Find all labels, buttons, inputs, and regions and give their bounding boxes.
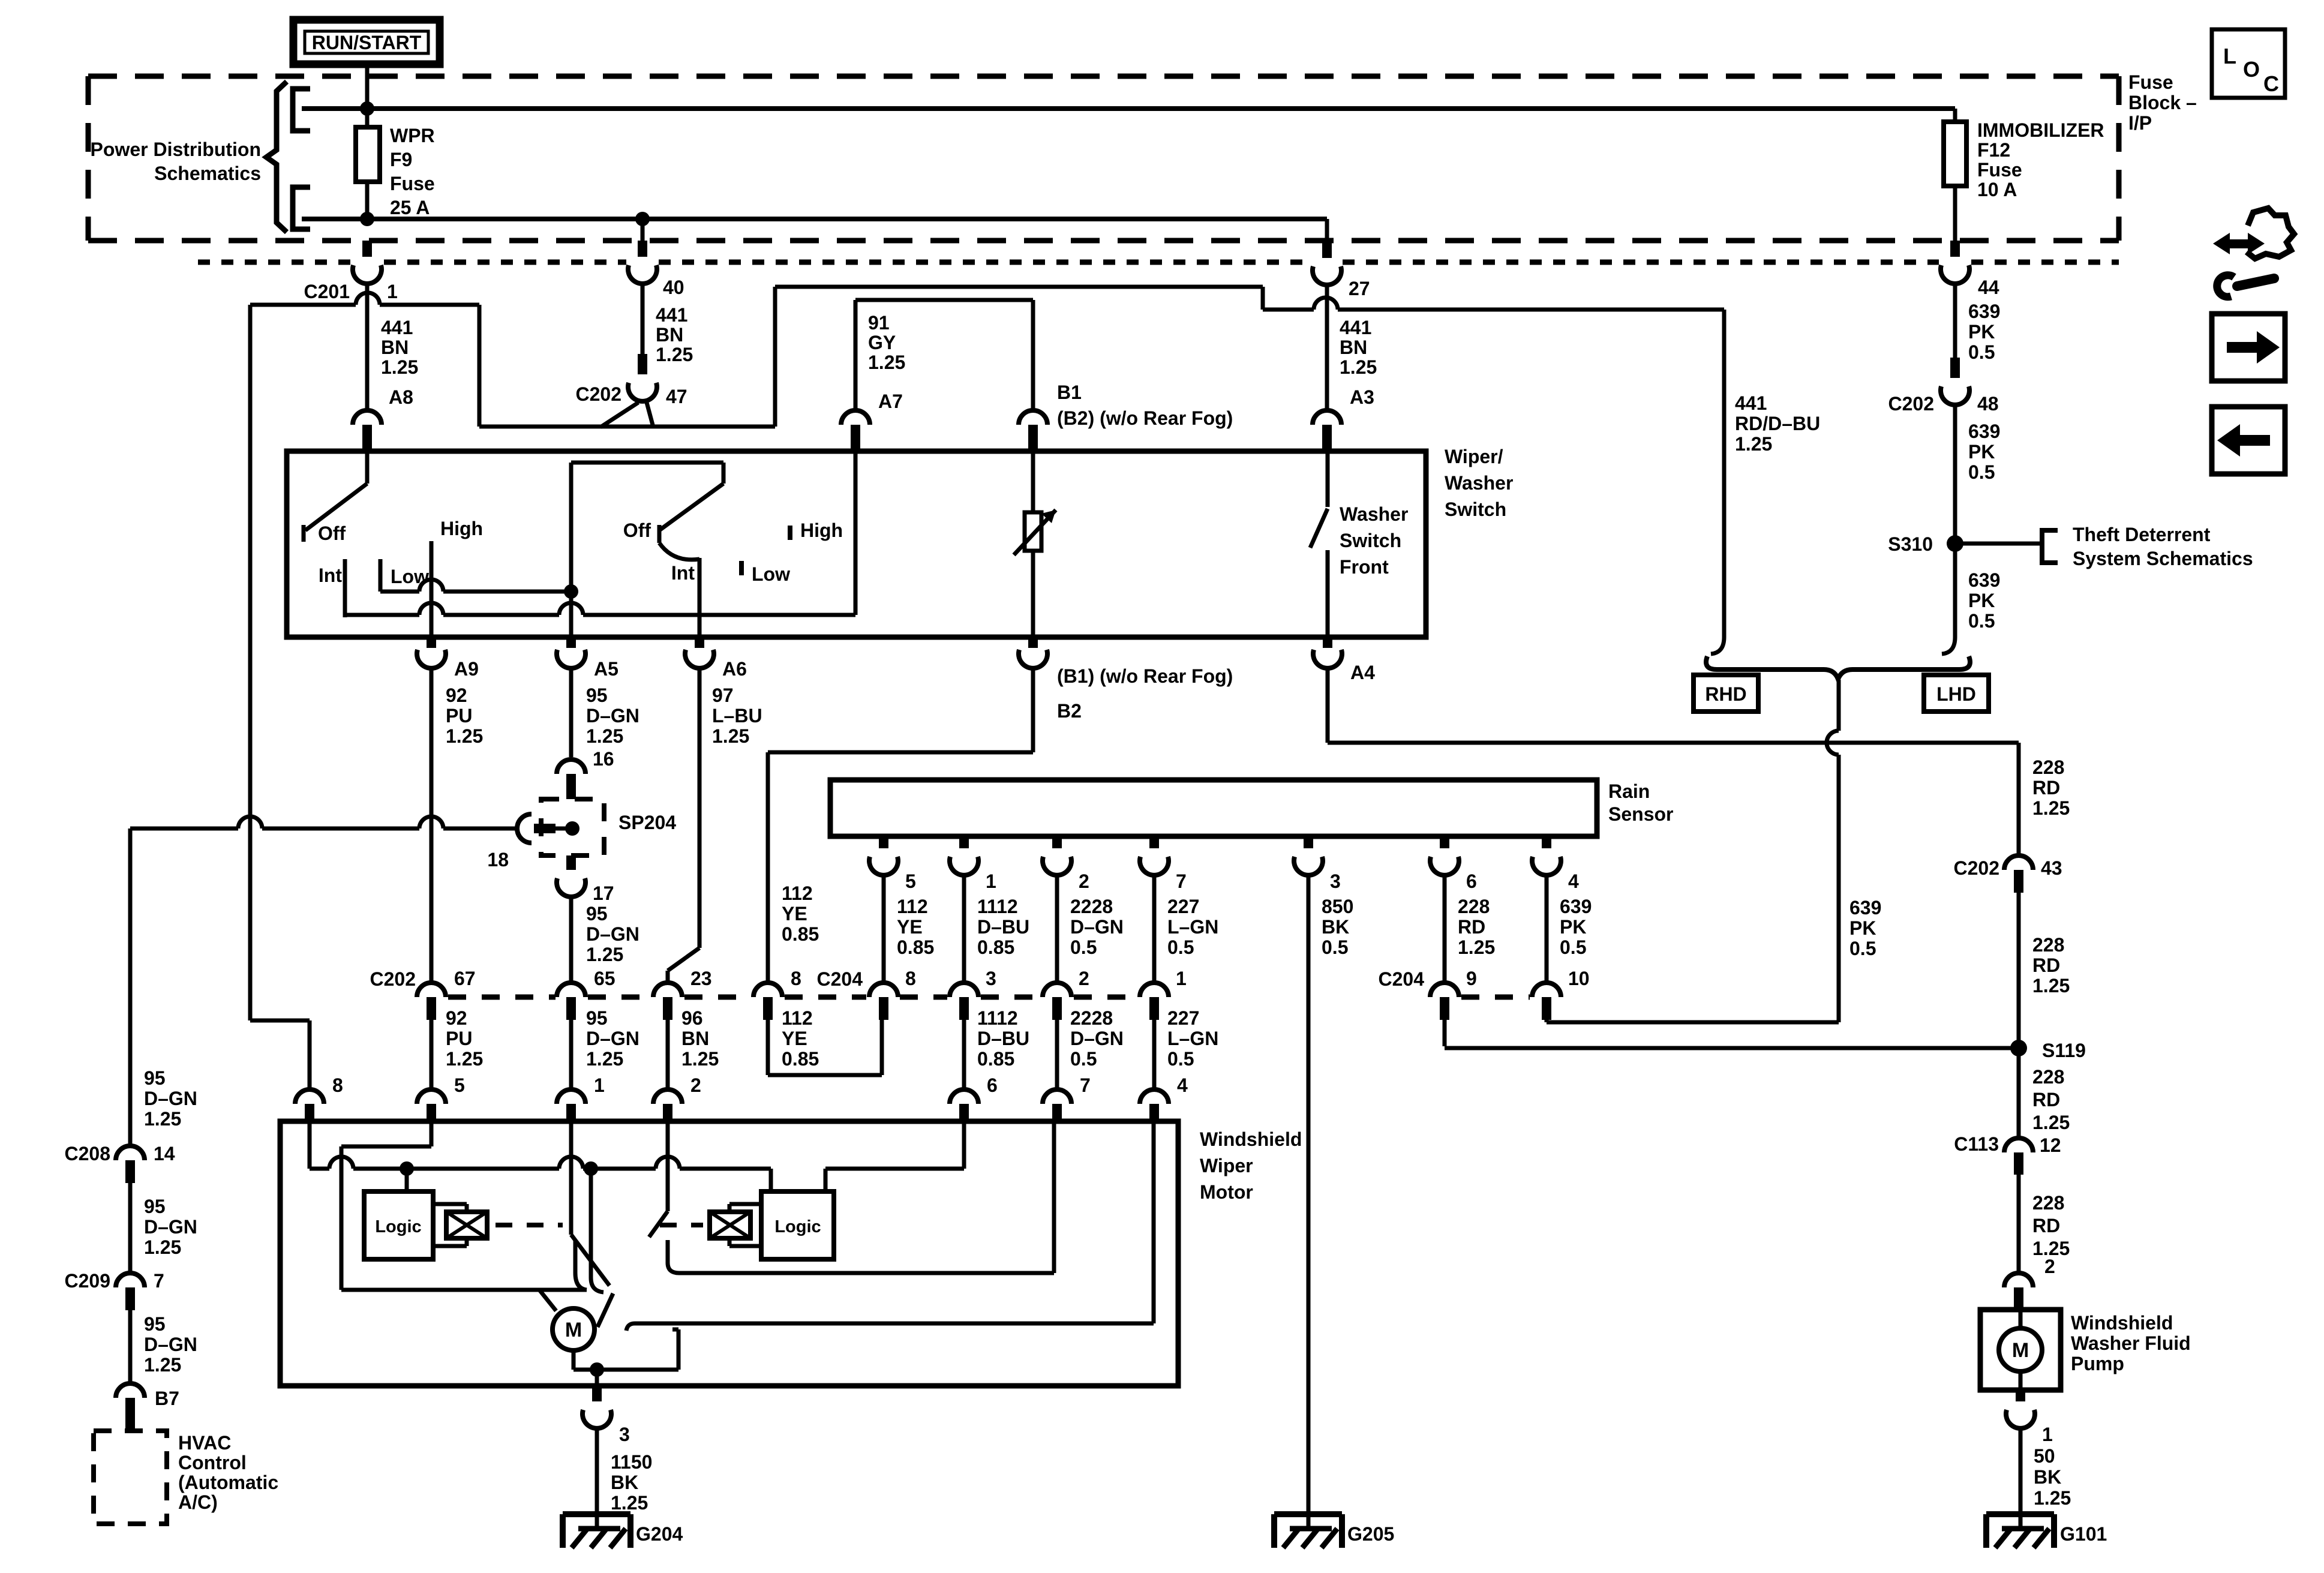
- bus wire lower: [302, 217, 1327, 221]
- svg-text:2: 2: [2044, 1256, 2055, 1277]
- motor pin 8: [295, 1074, 343, 1121]
- windshield wiper motor box: [280, 1121, 1178, 1386]
- svg-text:6: 6: [987, 1074, 998, 1096]
- label 228 RD 1.25 (C113): [2032, 1192, 2070, 1259]
- wire 639 PK (S310 to LHD): [1942, 544, 1955, 654]
- svg-text:0.85: 0.85: [897, 936, 934, 958]
- svg-text:Washer Fluid: Washer Fluid: [2071, 1332, 2191, 1354]
- connector C201 pin 1: [304, 241, 398, 302]
- svg-text:High: High: [440, 518, 483, 539]
- motor pin 2: [653, 1074, 701, 1121]
- svg-text:44: 44: [1978, 277, 1999, 298]
- label 441 RD/D-BU 1.25: [1735, 392, 1820, 455]
- svg-text:Logic: Logic: [774, 1217, 821, 1236]
- wire 639 PK (C204-10 to LHD brace): [1547, 680, 1839, 1022]
- svg-text:8: 8: [905, 968, 916, 989]
- svg-text:2: 2: [1079, 968, 1089, 989]
- svg-text:92: 92: [446, 685, 467, 706]
- label 441 BN 1.25 (A3): [1340, 317, 1377, 378]
- motor pin 3 exit: [595, 1370, 599, 1386]
- svg-text:0.85: 0.85: [977, 936, 1014, 958]
- connector C208 pin 14: [65, 1143, 175, 1183]
- svg-text:97: 97: [712, 685, 734, 706]
- svg-text:Theft Deterrent: Theft Deterrent: [2073, 524, 2211, 545]
- svg-text:1.25: 1.25: [2034, 1487, 2071, 1509]
- wire to motor pin 4: [1154, 1007, 1218, 1089]
- svg-text:441: 441: [656, 304, 687, 326]
- svg-text:G204: G204: [636, 1523, 683, 1545]
- wire Int to A7 (y1025): [345, 451, 855, 615]
- wire High to A9: [430, 541, 434, 637]
- svg-text:3: 3: [986, 968, 996, 989]
- switch1 blade (Off position): [305, 451, 367, 530]
- bus wire upper (RUN/START feed): [302, 106, 1955, 111]
- svg-text:A/C): A/C): [178, 1491, 218, 1513]
- svg-text:1112: 1112: [977, 1007, 1018, 1029]
- motor pin1 switch: [571, 1121, 609, 1290]
- svg-text:D–GN: D–GN: [586, 923, 639, 945]
- svg-text:B7: B7: [155, 1388, 179, 1409]
- svg-text:BN: BN: [681, 1028, 709, 1049]
- wire A6 inside box: [698, 558, 702, 637]
- svg-text:Washer: Washer: [1445, 472, 1513, 494]
- svg-text:43: 43: [2041, 857, 2062, 879]
- svg-text:C204: C204: [817, 968, 863, 990]
- label C204 (right): [1379, 968, 1425, 990]
- svg-text:Rain: Rain: [1608, 781, 1650, 802]
- svg-text:RD: RD: [2032, 1215, 2060, 1236]
- svg-text:D–GN: D–GN: [144, 1334, 197, 1355]
- svg-text:1.25: 1.25: [586, 725, 623, 747]
- fuse block tap bracket lower: [293, 187, 310, 229]
- svg-text:B1: B1: [1057, 382, 1082, 403]
- wire 228 RD (S119 to C113): [2017, 1048, 2021, 1138]
- label HVAC Control: [178, 1432, 278, 1513]
- pin A8: [353, 386, 413, 451]
- svg-text:95: 95: [144, 1067, 166, 1089]
- label 92 PU 1.25 (A9): [446, 685, 483, 747]
- svg-text:850: 850: [1322, 896, 1353, 917]
- svg-text:RD: RD: [1458, 916, 1485, 938]
- label 50 BK 1.25: [2034, 1445, 2071, 1509]
- wire 97 L-BU (A6 to C202-23): [668, 670, 699, 983]
- svg-text:A9: A9: [454, 658, 479, 680]
- svg-text:L–BU: L–BU: [712, 705, 762, 727]
- svg-text:67: 67: [454, 968, 476, 989]
- svg-text:9: 9: [1466, 968, 1477, 989]
- svg-text:112: 112: [782, 1007, 813, 1029]
- wire 441 BN (C201-40 to C202-47): [641, 284, 645, 354]
- switch2 blade (Off): [659, 484, 723, 530]
- park dashed link 2: [660, 1223, 703, 1227]
- svg-text:A8: A8: [389, 386, 413, 408]
- wire 112 YE jumper (C202-8 to C204-8): [768, 1020, 882, 1075]
- label IMMOBILIZER F12 Fuse 10A: [1977, 119, 2104, 200]
- wire to theft deterrent bracket: [1955, 542, 2042, 546]
- connector C202 pin 47 (splice to two branches): [576, 354, 687, 427]
- label 639 PK 0.5 (brace): [1849, 897, 1881, 959]
- pump pin 2: [2004, 1256, 2055, 1310]
- label 639 PK 0.5 (48): [1968, 421, 2000, 483]
- svg-text:27: 27: [1349, 278, 1370, 299]
- svg-text:Low: Low: [752, 563, 790, 585]
- svg-text:441: 441: [381, 317, 413, 338]
- svg-text:D–BU: D–BU: [977, 1028, 1029, 1049]
- bracket theft deterrent: [2042, 530, 2058, 563]
- svg-text:M: M: [565, 1319, 582, 1341]
- wire 95 D-GN (17 to C202-65): [569, 898, 574, 983]
- junction dot Low/A5: [564, 584, 578, 599]
- motor bus dots: [400, 1161, 598, 1176]
- motor pin2 switch: [649, 1121, 679, 1273]
- motor pin6 path: [825, 1121, 964, 1191]
- svg-text:8: 8: [791, 968, 801, 989]
- fuse WPR F9: [356, 109, 380, 219]
- label 92 PU 1.25 (lower): [446, 1007, 483, 1070]
- label Windshield Wiper Motor: [1200, 1128, 1302, 1203]
- svg-text:D–GN: D–GN: [1070, 916, 1124, 938]
- label 95 D-GN 1.25 (17): [586, 903, 639, 965]
- wire 228 RD (C113 to pump): [2017, 1175, 2021, 1273]
- svg-text:0.5: 0.5: [1849, 938, 1876, 959]
- svg-text:228: 228: [2032, 1066, 2064, 1088]
- label 441 BN 1.25 (40): [656, 304, 693, 365]
- svg-text:47: 47: [666, 386, 687, 407]
- svg-text:7: 7: [1080, 1074, 1091, 1096]
- fuse block dashed box (Fuse Block - I/P): [88, 76, 2119, 241]
- motor park solenoid 2: [710, 1204, 761, 1246]
- washer switch front blade: [1310, 451, 1328, 548]
- pin B1: [1019, 382, 1233, 451]
- svg-text:Schematics: Schematics: [154, 163, 261, 184]
- connector C209 pin 7: [65, 1270, 164, 1310]
- switch1 Int contact: [319, 559, 345, 617]
- svg-text:SP204: SP204: [618, 812, 676, 833]
- svg-text:Block –: Block –: [2128, 92, 2197, 113]
- svg-text:95: 95: [144, 1313, 166, 1335]
- svg-text:12: 12: [2040, 1134, 2061, 1156]
- label High 1: [440, 518, 483, 539]
- svg-text:C202: C202: [1954, 857, 2000, 879]
- rain sensor box: [830, 780, 1597, 836]
- svg-text:3: 3: [1330, 870, 1341, 892]
- svg-text:G205: G205: [1347, 1523, 1394, 1545]
- svg-text:High: High: [800, 520, 843, 541]
- potentiometer (intermittent delay): [1014, 510, 1056, 555]
- label Fuse Block - I/P: [2128, 71, 2197, 134]
- splice S119: [2010, 1040, 2086, 1061]
- icon arrow-right box: [2212, 314, 2285, 381]
- label Rain Sensor: [1608, 781, 1673, 825]
- rain sensor pin 1: [950, 836, 1029, 1020]
- svg-text:HVAC: HVAC: [178, 1432, 231, 1454]
- svg-text:A4: A4: [1350, 662, 1375, 683]
- svg-text:1.25: 1.25: [2032, 975, 2070, 996]
- icon arrow-left box: [2212, 407, 2285, 474]
- svg-text:1.25: 1.25: [2032, 797, 2070, 819]
- svg-text:4: 4: [1568, 870, 1579, 892]
- wire 639 PK (C202-48 to S310): [1953, 406, 1957, 544]
- svg-text:Sensor: Sensor: [1608, 803, 1673, 825]
- motor line pin4: [1152, 1121, 1154, 1323]
- pin A5: [557, 637, 618, 680]
- wire 228 RD (C204-9 to S119): [1445, 1020, 2019, 1048]
- wire 441 feed to motor pin 8: [250, 305, 310, 1089]
- motor pin 4: [1140, 1074, 1188, 1121]
- svg-text:1.25: 1.25: [2032, 1112, 2070, 1133]
- svg-text:0.5: 0.5: [1167, 1048, 1194, 1070]
- svg-text:1.25: 1.25: [381, 356, 418, 378]
- svg-text:C: C: [2263, 71, 2279, 96]
- svg-text:95: 95: [586, 903, 608, 924]
- svg-text:228: 228: [1458, 896, 1490, 917]
- wire 639 PK (44 to C202-48): [1953, 284, 1957, 358]
- washer switch lower contact: [1326, 550, 1330, 637]
- wire B1 to potentiometer: [1031, 451, 1035, 512]
- pin A7: [841, 391, 903, 451]
- switch1 Low contact: [380, 559, 429, 592]
- rain sensor pin 7: [1140, 836, 1218, 1020]
- svg-text:1.25: 1.25: [446, 725, 483, 747]
- svg-text:1.25: 1.25: [446, 1048, 483, 1070]
- fuse IMMOBILIZER F12: [1944, 109, 1966, 241]
- svg-text:G101: G101: [2060, 1523, 2107, 1545]
- svg-text:2: 2: [690, 1074, 701, 1096]
- fuse block tap bracket upper: [293, 89, 310, 131]
- svg-text:S310: S310: [1888, 533, 1933, 555]
- svg-text:YE: YE: [782, 903, 807, 924]
- svg-text:C202: C202: [370, 968, 416, 990]
- svg-text:BK: BK: [1322, 916, 1349, 938]
- svg-text:1.25: 1.25: [1340, 356, 1377, 378]
- svg-text:7: 7: [1176, 870, 1187, 892]
- wire to motor pin 6: [964, 1007, 1029, 1089]
- svg-text:228: 228: [2032, 1192, 2064, 1214]
- svg-text:Fuse: Fuse: [390, 173, 435, 194]
- label Windshield Washer Fluid Pump: [2071, 1312, 2191, 1374]
- svg-text:1150: 1150: [611, 1451, 652, 1473]
- svg-text:95: 95: [586, 685, 608, 706]
- switch2 frame: [571, 463, 723, 592]
- svg-text:Switch: Switch: [1445, 499, 1506, 520]
- pin B7 HVAC: [116, 1383, 179, 1430]
- svg-text:BK: BK: [611, 1472, 638, 1493]
- svg-text:112: 112: [897, 896, 928, 917]
- svg-text:D–GN: D–GN: [586, 1028, 639, 1049]
- svg-text:1.25: 1.25: [868, 352, 905, 373]
- label Power Distribution Schematics: [91, 139, 261, 184]
- pin B2 (B1): [1019, 637, 1233, 722]
- connector SP204 pin 18: [487, 814, 572, 870]
- svg-text:Power Distribution: Power Distribution: [91, 139, 261, 160]
- connector C202 pin 67: [370, 968, 476, 1020]
- svg-text:C201: C201: [304, 281, 350, 302]
- brace Power Distribution: [266, 82, 287, 232]
- wire A5 through box: [569, 592, 574, 637]
- motor logic1 box: [364, 1169, 433, 1259]
- svg-text:C208: C208: [65, 1143, 111, 1164]
- wire 1150 BK to G204: [595, 1430, 599, 1529]
- switch2 blade curve to Int: [659, 543, 699, 560]
- wire C209 to B7: [128, 1310, 133, 1383]
- splice SP204 dot: [565, 821, 580, 836]
- label 91 GY 1.25: [868, 312, 905, 373]
- svg-text:B2: B2: [1057, 700, 1082, 722]
- wire to motor pin 7: [1057, 1007, 1124, 1089]
- svg-text:PK: PK: [1968, 590, 1995, 611]
- splice box SP204: [541, 799, 604, 855]
- svg-text:O: O: [2243, 57, 2260, 82]
- svg-text:PU: PU: [446, 705, 472, 727]
- svg-text:50: 50: [2034, 1445, 2055, 1467]
- svg-text:0.85: 0.85: [977, 1048, 1014, 1070]
- svg-text:1: 1: [387, 281, 398, 302]
- svg-text:639: 639: [1968, 301, 2000, 322]
- svg-text:C113: C113: [1954, 1133, 1999, 1155]
- ground G205: [1274, 1514, 1394, 1548]
- svg-text:RD: RD: [2032, 777, 2060, 798]
- svg-text:LHD: LHD: [1936, 683, 1976, 705]
- svg-text:0.5: 0.5: [1968, 341, 1995, 363]
- connector C202 pin 23: [653, 968, 712, 1020]
- svg-text:BN: BN: [1340, 337, 1367, 358]
- svg-text:25 A: 25 A: [390, 197, 430, 218]
- wire 50 BK (pump to G101): [2019, 1430, 2023, 1529]
- label 228 RD 1.25 (mid): [2032, 934, 2070, 996]
- svg-text:92: 92: [446, 1007, 467, 1029]
- svg-text:1.25: 1.25: [586, 944, 623, 965]
- RHD box: [1694, 675, 1758, 712]
- svg-text:L: L: [2223, 44, 2236, 68]
- svg-text:Wiper/: Wiper/: [1445, 446, 1503, 467]
- svg-text:(B2) (w/o Rear Fog): (B2) (w/o Rear Fog): [1057, 407, 1233, 429]
- svg-text:Wiper: Wiper: [1200, 1155, 1253, 1176]
- svg-text:0.5: 0.5: [1968, 461, 1995, 483]
- svg-text:0.5: 0.5: [1070, 1048, 1097, 1070]
- svg-text:4: 4: [1177, 1074, 1188, 1096]
- junction dot bus2/441BN: [635, 212, 650, 226]
- label 112 YE 0.85 (upper): [782, 882, 819, 945]
- label Wiper/Washer Switch: [1445, 446, 1513, 520]
- svg-text:Windshield: Windshield: [2071, 1312, 2173, 1334]
- svg-text:C209: C209: [65, 1270, 111, 1292]
- wire 228 RD (43 to S119): [2017, 893, 2021, 1048]
- svg-text:95: 95: [586, 1007, 608, 1029]
- svg-text:228: 228: [2032, 757, 2064, 778]
- RUN/START box: [293, 20, 440, 64]
- splice S310: [1888, 533, 1963, 555]
- svg-text:YE: YE: [897, 916, 923, 938]
- wire Low to A5 (y986): [380, 580, 571, 592]
- svg-text:D–GN: D–GN: [1070, 1028, 1124, 1049]
- svg-text:0.5: 0.5: [1560, 936, 1586, 958]
- svg-text:YE: YE: [782, 1028, 807, 1049]
- switch2 Int label: [671, 562, 695, 584]
- motor pin 7: [1043, 1074, 1091, 1121]
- svg-text:23: 23: [690, 968, 712, 989]
- svg-text:639: 639: [1560, 896, 1592, 917]
- svg-text:Motor: Motor: [1200, 1181, 1253, 1203]
- svg-text:Off: Off: [318, 523, 346, 544]
- svg-text:IMMOBILIZER: IMMOBILIZER: [1977, 119, 2104, 141]
- svg-text:(Automatic: (Automatic: [178, 1472, 278, 1493]
- junction dot bus2/WPR: [360, 212, 374, 226]
- svg-text:10: 10: [1568, 968, 1590, 989]
- svg-text:System Schematics: System Schematics: [2073, 548, 2253, 569]
- svg-text:5: 5: [454, 1074, 465, 1096]
- wire RUN/START to bus: [365, 64, 370, 109]
- svg-text:18: 18: [487, 849, 509, 870]
- svg-text:RHD: RHD: [1705, 683, 1746, 705]
- wire 95 D-GN (C202-65 to motor 1): [569, 1020, 574, 1089]
- wire 112 YE (B2 jog): [768, 670, 1033, 983]
- label 228 RD 1.25 (top): [2032, 757, 2070, 819]
- svg-text:I/P: I/P: [2128, 112, 2152, 134]
- svg-text:0.5: 0.5: [1968, 610, 1995, 632]
- svg-text:3: 3: [619, 1424, 630, 1445]
- wire HVAC tap (18 to C208): [130, 816, 517, 1146]
- svg-text:L–GN: L–GN: [1167, 1028, 1218, 1049]
- svg-text:RUN/START: RUN/START: [312, 32, 422, 53]
- label 112 YE 0.85 (lower): [782, 1007, 819, 1070]
- svg-text:1.25: 1.25: [611, 1492, 648, 1514]
- svg-text:0.5: 0.5: [1167, 936, 1194, 958]
- svg-text:5: 5: [905, 870, 916, 892]
- rain sensor pin 2: [1043, 836, 1124, 1020]
- connector C113 pin 12: [1954, 1133, 2061, 1175]
- label SP204: [618, 812, 676, 833]
- svg-text:0.85: 0.85: [782, 923, 819, 945]
- svg-text:14: 14: [154, 1143, 175, 1164]
- svg-text:17: 17: [593, 882, 614, 904]
- junction dot bus1/WPR: [360, 101, 374, 116]
- svg-text:40: 40: [663, 277, 684, 298]
- connector C201 pin 44: [1941, 241, 1999, 298]
- rain sensor pin 5: [869, 836, 934, 1020]
- label 639 PK 0.5 (44): [1968, 301, 2000, 363]
- svg-text:F12: F12: [1977, 139, 2010, 161]
- svg-text:0.85: 0.85: [782, 1048, 819, 1070]
- svg-text:A7: A7: [878, 391, 903, 412]
- svg-text:441: 441: [1340, 317, 1371, 338]
- svg-text:227: 227: [1167, 1007, 1199, 1029]
- label 228 RD 1.25 (S119): [2032, 1066, 2070, 1133]
- motor pin5 path: [341, 1121, 587, 1290]
- connector SP204 pin 16: [557, 748, 614, 799]
- label 95 D-GN 1.25 (lower): [586, 1007, 639, 1070]
- connector C202 pin 43: [1954, 855, 2062, 893]
- svg-text:112: 112: [782, 882, 813, 904]
- svg-text:95: 95: [144, 1196, 166, 1217]
- svg-text:227: 227: [1167, 896, 1199, 917]
- svg-text:D–GN: D–GN: [144, 1088, 197, 1109]
- svg-text:D–GN: D–GN: [144, 1216, 197, 1238]
- svg-text:Pump: Pump: [2071, 1353, 2124, 1374]
- wire 96 BN (C202-23 to motor 2): [666, 1020, 670, 1089]
- label 95 D-GN 1.25 (C209): [144, 1196, 197, 1258]
- motor pin 6: [950, 1074, 998, 1121]
- switch1 Off contact: [304, 523, 346, 544]
- motor logic2 box: [761, 1191, 834, 1259]
- svg-text:A3: A3: [1350, 386, 1374, 408]
- svg-text:Front: Front: [1340, 556, 1389, 578]
- motor line pin7: [679, 1121, 1054, 1273]
- svg-text:1: 1: [594, 1074, 605, 1096]
- junction dot motor ground: [590, 1362, 604, 1377]
- park dashed link 1: [496, 1223, 563, 1227]
- connector C202 pin 8: [753, 968, 801, 1020]
- rain sensor pin 6: [1430, 836, 1495, 1020]
